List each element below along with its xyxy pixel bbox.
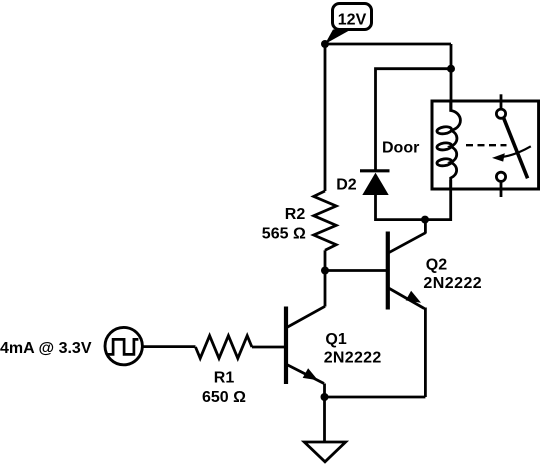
- svg-text:2N2222: 2N2222: [423, 275, 482, 292]
- svg-text:D2: D2: [336, 176, 357, 193]
- ground: [304, 442, 345, 462]
- resistor R1: [196, 336, 252, 359]
- node Q1 collector junction: [321, 267, 329, 275]
- wire junction to relay coil bottom: [425, 180, 451, 220]
- relay link dashed: [466, 144, 507, 146]
- wire top rail: [325, 43, 451, 46]
- node emitter junction: [321, 393, 329, 401]
- svg-text:2N2222: 2N2222: [324, 350, 382, 367]
- wire to diode D2 top: [376, 69, 452, 170]
- svg-text:R1: R1: [214, 369, 235, 386]
- svg-text:12V: 12V: [338, 11, 367, 28]
- svg-text:R2: R2: [285, 206, 306, 223]
- wire down to relay coil: [450, 44, 453, 111]
- svg-text:Q2: Q2: [426, 256, 447, 273]
- svg-text:4mA @ 3.3V: 4mA @ 3.3V: [0, 340, 92, 357]
- relay switch arrow: [492, 146, 531, 161]
- svg-text:650 Ω: 650 Ω: [202, 389, 246, 406]
- wire 12V to R2: [324, 44, 327, 191]
- relay switch top terminal: [496, 94, 505, 118]
- relay box: [432, 101, 539, 189]
- node 12V junction: [321, 40, 329, 48]
- transistor Q1: [286, 306, 325, 397]
- svg-text:565 Ω: 565 Ω: [262, 226, 306, 243]
- wire R1 to Q1 base: [252, 346, 285, 349]
- wire R2 to node: [324, 250, 327, 270]
- wire emitter rail: [325, 396, 426, 399]
- relay switch blade: [504, 118, 528, 178]
- wire node to Q2 base: [325, 269, 386, 272]
- resistor R2: [314, 191, 337, 250]
- svg-text:Q1: Q1: [325, 331, 346, 348]
- source V1: [105, 327, 142, 364]
- relay switch bottom terminal: [496, 172, 505, 197]
- wire Q1 collector up: [324, 271, 327, 307]
- wire diode bottom to junction: [376, 195, 426, 220]
- wire Q2 emitter down: [424, 308, 427, 398]
- diode D2: [360, 171, 390, 195]
- wire to ground: [323, 397, 326, 442]
- relay coil: [436, 101, 460, 188]
- power flag 12V: [325, 4, 372, 45]
- node D2 top junction: [447, 65, 455, 73]
- transistor Q2: [388, 220, 426, 310]
- node coil bottom junction: [421, 216, 429, 224]
- wire source to R1: [143, 345, 196, 348]
- svg-text:Door: Door: [382, 139, 419, 156]
